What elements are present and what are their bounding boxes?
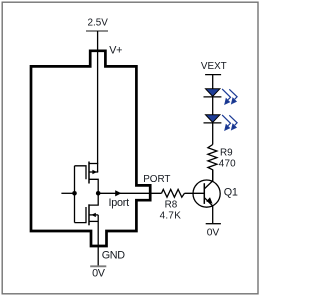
transistor M1 PMOS gate (75, 166, 87, 180)
svg-text:GND: GND (102, 249, 125, 261)
wire V+ drop (97, 31, 99, 172)
svg-text:4.7K: 4.7K (160, 211, 182, 222)
node output junction (96, 191, 101, 196)
resistor R8 zigzag (162, 189, 185, 197)
transistor Q1 collector (204, 170, 212, 189)
svg-text:470: 470 (219, 159, 236, 170)
svg-text:R9: R9 (220, 148, 233, 159)
transistor M1 PMOS bulk stub with arrow (89, 171, 98, 173)
transistor Q1 base bar (203, 183, 205, 204)
ground bar 0V under Q1 (206, 223, 221, 225)
wire gate input stub (61, 192, 74, 194)
svg-text:0V: 0V (207, 227, 220, 238)
transistor M2 NMOS bulk stub with arrow (89, 214, 98, 216)
transistor M2 NMOS channel bar (88, 204, 90, 225)
LED D1 emission arrows (222, 89, 237, 104)
svg-text:Iport: Iport (109, 197, 130, 209)
transistor M1 PMOS channel bar (88, 162, 90, 184)
svg-text:0V: 0V (92, 268, 106, 280)
resistor R9 zigzag (208, 145, 217, 181)
svg-text:V+: V+ (109, 45, 122, 57)
svg-text:VEXT: VEXT (201, 61, 227, 72)
wire LED2 to R9 (212, 123, 214, 145)
LED D2 emission arrows (222, 115, 237, 130)
LED D1 (206, 89, 220, 97)
transistor Q1 circle (193, 180, 220, 207)
wire gate rail (74, 166, 76, 223)
transistor M2 NMOS drain stub (89, 193, 98, 205)
transistor Q1 emitter with arrow (204, 198, 212, 223)
transistor M1 PMOS drain stub (89, 179, 98, 193)
ground rail GND bar (90, 265, 106, 267)
border frame (2, 2, 258, 294)
power rail 2.5V bar (86, 30, 108, 32)
IC box U1 outline with supply notches and port tab (31, 51, 150, 246)
wire R8 to Q1 base (185, 192, 205, 194)
transistor M2 NMOS gate (75, 207, 87, 223)
svg-text:2.5V: 2.5V (88, 18, 109, 29)
svg-text:PORT: PORT (143, 174, 170, 185)
svg-text:R8: R8 (165, 200, 178, 211)
wire output to R8 (98, 192, 161, 194)
transistor M1 PMOS source stub (89, 163, 98, 165)
transistor M2 NMOS source stub (89, 220, 98, 222)
node gate junction (72, 191, 77, 196)
svg-text:Q1: Q1 (224, 187, 238, 199)
wire NMOS source to ground (97, 215, 99, 266)
LED D2 (206, 115, 220, 123)
power rail VEXT bar (205, 74, 221, 76)
wire VEXT to LED1 (212, 75, 214, 89)
wire LED1 to LED2 (212, 97, 214, 115)
arrow Iport current direction (115, 190, 121, 196)
